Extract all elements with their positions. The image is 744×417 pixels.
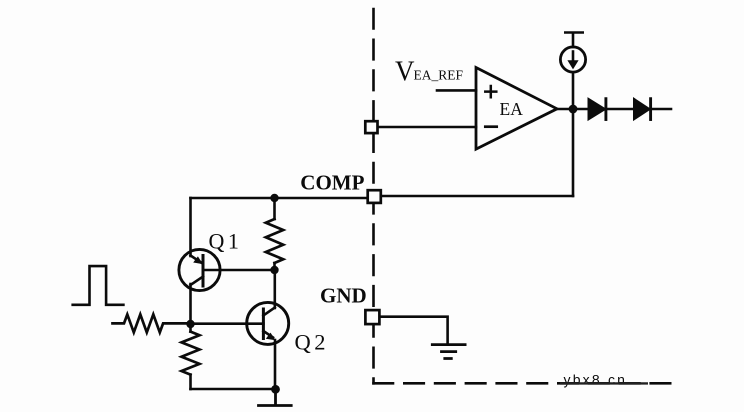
plus sign (EA noninverting input) (485, 86, 496, 97)
Q1 base bar (202, 256, 205, 287)
Q1 emitter diagonal (arrow into base, PNP) (191, 256, 203, 264)
transistor Q1 circle (179, 249, 220, 290)
IC boundary vertical dashed line (372, 9, 375, 383)
node dot: COMP line / R2 top (270, 194, 278, 202)
transistor Q2 circle (247, 302, 289, 344)
Q1 emitter arrowhead (193, 256, 203, 264)
wire: Q1 base to resistor column (203, 269, 275, 272)
pin square: EA inverting input (365, 121, 377, 133)
wire: bottom rail (191, 388, 276, 391)
current source I1 circle (560, 47, 585, 72)
pin square: GND (365, 310, 379, 324)
Q2 base bar (262, 309, 265, 339)
wire: corner from COMP line down to Q1 emitter (189, 198, 192, 256)
IC boundary bottom dashed line (374, 382, 672, 385)
current source I1 arrow (567, 52, 578, 70)
ground symbol (bottom rail) (259, 389, 292, 406)
wire: D2 to right edge (651, 108, 671, 111)
resistor R1 (input series) (113, 314, 191, 332)
ground symbol (GND pin) (432, 345, 465, 359)
resistor R2 (collector pull) (266, 219, 283, 263)
watermark strikethrough line (560, 382, 648, 384)
wire: Q2 base line from node (191, 322, 264, 325)
svg-text:Q2: Q2 (295, 329, 330, 354)
node dot: bottom rail / ground (271, 385, 280, 394)
wire: VEA_REF stub to EA plus input (437, 89, 476, 92)
wire: resistor column top (COMP line to R2) (273, 198, 276, 219)
wire: COMP pin to EA output node (horizontal) (381, 195, 573, 198)
diode D1 cathode bar (604, 99, 607, 120)
svg-text:COMP: COMP (300, 170, 364, 194)
node dot: EA output (569, 105, 578, 114)
wire: inverting pin to EA minus input (378, 126, 476, 129)
wire: GND pin to ground symbol (380, 317, 448, 344)
node dot: Q1 collector / R1 / Q2 base (186, 320, 194, 328)
wire: EA output to diode D1 (557, 108, 589, 111)
svg-text:EA_REF: EA_REF (414, 68, 464, 83)
op-amp U1 EA (476, 68, 557, 150)
svg-text:ybx8.cn: ybx8.cn (564, 372, 628, 388)
wire: Q2 collector vertical (273, 270, 276, 308)
wire: current source top stub (572, 33, 575, 47)
svg-text:Q1: Q1 (209, 229, 243, 254)
wire: current source to output node (572, 72, 575, 106)
svg-text:EA: EA (500, 99, 524, 119)
minus sign (EA inverting input) (485, 125, 496, 128)
wire: R2 bottom to Q2 collector (273, 263, 276, 270)
node dot: R2 bottom / Q1 base (270, 266, 278, 274)
resistor R3 (base pulldown) (182, 332, 200, 375)
Q2 collector diagonal (263, 308, 274, 316)
svg-text:V: V (395, 55, 415, 87)
wire: Q2 emitter down to bottom rail (274, 340, 277, 389)
diode D2 (filled triangle) (634, 99, 650, 119)
wire: Q1 collector down to base node (189, 284, 192, 324)
Q1 collector diagonal (191, 277, 204, 286)
Q2 emitter arrowhead (266, 333, 276, 341)
wire: R3 bottom lead to rail (189, 375, 192, 389)
pin square: COMP (368, 190, 381, 203)
supply T-bar above current source (565, 31, 582, 34)
wire: EA output node down to COMP line (572, 107, 575, 196)
pulse waveform symbol (input signal) (73, 266, 124, 305)
wire: node to R3 top lead (189, 324, 192, 332)
Q2 emitter diagonal (arrow out, NPN) (263, 331, 273, 338)
diode D2 cathode bar (649, 99, 652, 120)
wire: COMP line left segment (191, 197, 367, 200)
wire: D1 to D2 (606, 108, 635, 111)
diode D1 (filled triangle) (589, 99, 606, 119)
svg-text:GND: GND (320, 284, 367, 308)
